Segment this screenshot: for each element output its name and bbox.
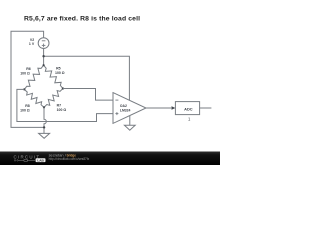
svg-text:LAB: LAB: [37, 158, 44, 162]
wire: op-amp output to ADC: [146, 107, 171, 109]
node: bridge left: [23, 88, 25, 90]
wire: ADC output stub: [200, 107, 212, 109]
CircuitLab logo: [14, 154, 46, 162]
op-amp OA2 LM324: [113, 93, 146, 124]
node: V2 / supply junction: [42, 55, 44, 57]
svg-text:OA2: OA2: [120, 104, 127, 108]
wire: supply rail to op-amp V+: [44, 56, 130, 100]
node: bridge top: [43, 64, 45, 66]
svg-text:R5,6,7 are fixed. R8 is the lo: R5,6,7 are fixed. R8 is the load cell: [24, 16, 140, 23]
svg-text:LM324: LM324: [120, 109, 131, 113]
ground (bridge/V2 return): [39, 133, 50, 138]
wire: junction to bridge top node: [43, 56, 45, 65]
wire: bridge bottom node to ground (hop over + wire): [44, 107, 46, 133]
svg-text:R7: R7: [57, 104, 62, 108]
resistor R6: [24, 65, 43, 89]
node: bridge right: [62, 87, 64, 89]
svg-text:R6: R6: [26, 67, 31, 71]
svg-text:100 Ω: 100 Ω: [20, 72, 30, 76]
node: ground junction: [43, 126, 45, 128]
ground (op-amp V-): [124, 125, 135, 130]
wire: V2 bottom lead: [43, 49, 45, 57]
svg-text:100 Ω: 100 Ω: [57, 108, 67, 112]
svg-text:100 Ω: 100 Ω: [55, 71, 65, 75]
ADC U1 box: [175, 102, 199, 115]
voltage source V2: [38, 38, 49, 49]
wire: op-amp V- stub: [129, 116, 131, 126]
svg-text:CIRCUIT: CIRCUIT: [14, 154, 40, 159]
svg-text:ADC: ADC: [184, 107, 193, 112]
svg-text:R8: R8: [25, 104, 30, 108]
wire: bridge right node to op-amp inverting input: [63, 89, 113, 101]
ADC input arrow: [172, 106, 176, 110]
wire: V2 negative loop (left rail): [11, 31, 44, 127]
svg-text:http://circuitlab.com/c/ses87f: http://circuitlab.com/c/ses87fx: [49, 157, 90, 161]
svg-text:100 Ω: 100 Ω: [20, 108, 30, 112]
node: bridge bottom: [43, 106, 45, 108]
resistor R7: [44, 89, 63, 108]
wire: bridge left node to op-amp non-inverting input: [17, 89, 113, 121]
resistor R5: [44, 65, 63, 88]
svg-text:R5: R5: [56, 67, 61, 71]
resistor R8: [24, 89, 44, 107]
svg-text:1 V: 1 V: [29, 42, 35, 46]
